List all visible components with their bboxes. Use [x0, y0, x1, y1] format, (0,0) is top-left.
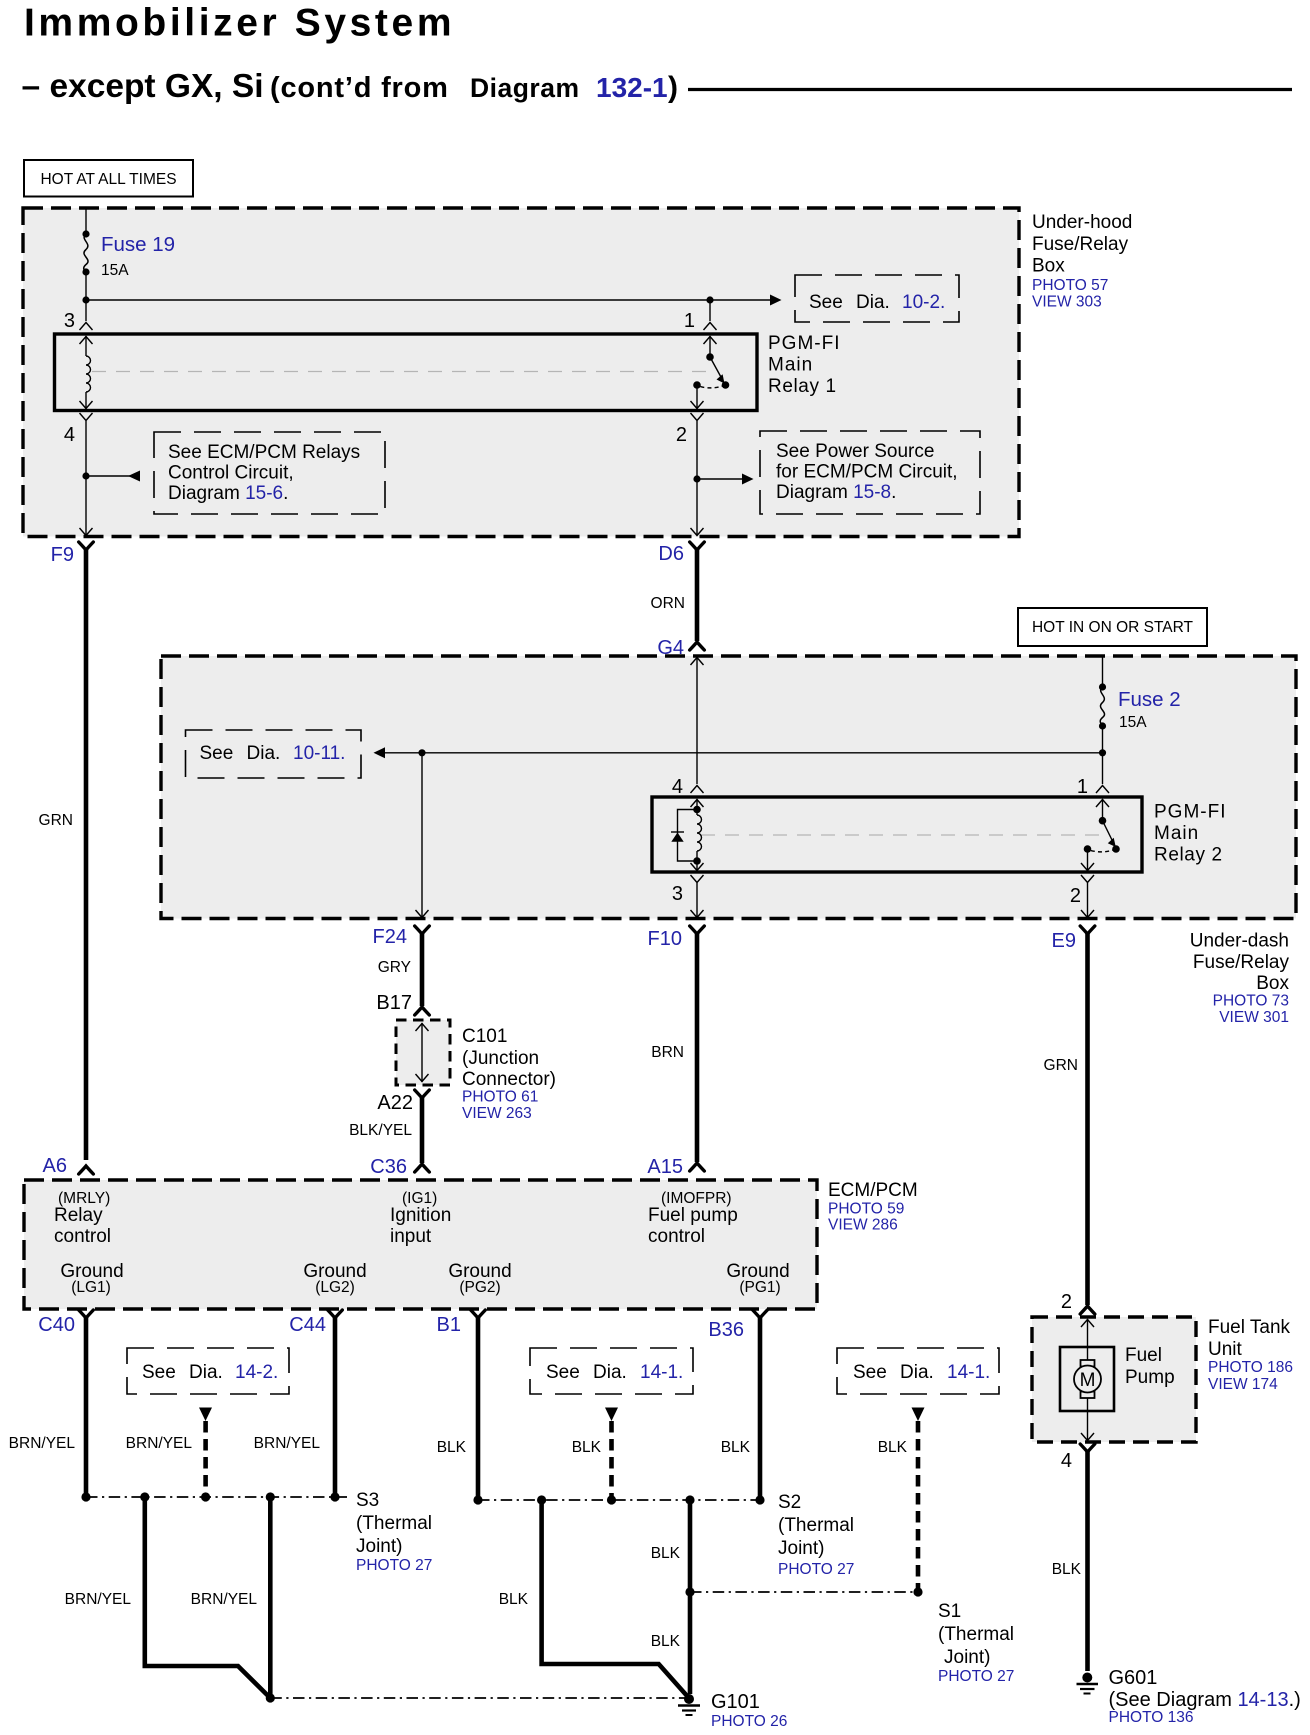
junction connector C101 box [396, 1020, 450, 1085]
svg-text:Box: Box [1032, 256, 1065, 277]
svg-text:Under-hood: Under-hood [1032, 212, 1132, 233]
svg-text:VIEW 303: VIEW 303 [1032, 294, 1102, 311]
svg-text:BRN/YEL: BRN/YEL [254, 1435, 321, 1452]
wire through fuel pump [1081, 1320, 1094, 1328]
svg-text:Fuse 19: Fuse 19 [101, 233, 175, 256]
relay1 internal dashed center line [92, 371, 710, 373]
svg-text:S1: S1 [938, 1601, 961, 1622]
relay1 coil [85, 336, 87, 356]
svg-text:BRN/YEL: BRN/YEL [126, 1435, 193, 1452]
svg-text:4: 4 [1061, 1450, 1072, 1472]
svg-text:BLK: BLK [651, 1545, 681, 1562]
svg-text:See Power Source: See Power Source [776, 441, 934, 462]
svg-text:14-1.: 14-1. [947, 1362, 990, 1383]
fuel pump motor M1 [1060, 1347, 1114, 1411]
svg-text:A6: A6 [43, 1155, 67, 1177]
label box: HOT IN ON OR START [1018, 608, 1207, 646]
svg-text:BRN/YEL: BRN/YEL [9, 1435, 76, 1452]
svg-text:input: input [390, 1226, 432, 1247]
pin 3 of relay 2 [696, 861, 698, 871]
wire BRN/YEL: C44 to S3 bus [333, 1317, 338, 1497]
svg-text:PGM-FI: PGM-FI [1154, 802, 1227, 823]
svg-text:Box: Box [1256, 973, 1289, 994]
svg-text:C36: C36 [370, 1156, 407, 1178]
relay2 coil [696, 799, 698, 810]
reference box: See Power Source for ECM/PCM Circuit Diagram 15-8 [760, 431, 980, 514]
relay2 switch [1102, 799, 1104, 821]
svg-text:14-1.: 14-1. [640, 1362, 683, 1383]
svg-text:PGM-FI: PGM-FI [768, 333, 841, 354]
svg-text:BLK: BLK [878, 1439, 908, 1456]
under-hood fuse/relay box [23, 208, 1019, 537]
node: junction above relay1 pin 1 [706, 296, 713, 303]
svg-text:Fuel: Fuel [1125, 1345, 1162, 1366]
wire BRN: F10 to A15 [695, 933, 700, 1162]
thermal joint S2 bus (dash-dot) [478, 1499, 760, 1501]
wire: relay1 pin4 down to F9 [85, 421, 87, 535]
wire: relay2 pin2 down to E9 [1087, 883, 1089, 917]
svg-text:VIEW 263: VIEW 263 [462, 1105, 532, 1122]
wire: horizontal bus y=300 to See Dia. 10-2 [86, 299, 773, 301]
svg-text:for ECM/PCM Circuit,: for ECM/PCM Circuit, [776, 462, 958, 483]
ground G601 [1082, 1673, 1092, 1683]
pin 2 of relay 2 [1087, 849, 1089, 871]
svg-text:Fuse/Relay: Fuse/Relay [1032, 234, 1129, 255]
svg-text:GRN: GRN [1044, 1057, 1078, 1074]
svg-text:(See Diagram 14-13.): (See Diagram 14-13.) [1109, 1689, 1301, 1711]
svg-text:10-11.: 10-11. [293, 743, 345, 764]
relay2 internal dashed center line [701, 834, 1100, 836]
svg-text:B1: B1 [437, 1314, 461, 1336]
wire GRN: F9 to A6 [84, 549, 89, 1160]
wire: horizontal bus y=752.8 [381, 752, 1103, 754]
wire BLK: B36 to S2 bus [758, 1317, 763, 1500]
svg-text:1: 1 [684, 310, 695, 332]
svg-text:4: 4 [672, 776, 683, 798]
svg-text:Fuse 2: Fuse 2 [1118, 688, 1181, 711]
svg-text:PHOTO 57: PHOTO 57 [1032, 277, 1108, 294]
svg-text:Dia.: Dia. [900, 1362, 934, 1383]
svg-text:PHOTO 27: PHOTO 27 [938, 1668, 1014, 1685]
svg-text:(Thermal: (Thermal [356, 1513, 432, 1534]
svg-text:Dia.: Dia. [247, 743, 281, 764]
svg-text:A22: A22 [377, 1092, 413, 1114]
svg-text:15A: 15A [1119, 714, 1147, 731]
svg-text:See: See [853, 1362, 887, 1383]
label box: HOT AT ALL TIMES [24, 160, 193, 197]
svg-text:Relay 1: Relay 1 [768, 376, 837, 397]
svg-text:ECM/PCM: ECM/PCM [828, 1180, 918, 1201]
wire GRN: E9 to fuel tank unit pin 2 [1085, 933, 1090, 1305]
svg-text:ORN: ORN [651, 595, 685, 612]
fuel tank unit box [1032, 1317, 1196, 1442]
fuse F19 (Fuse 19 15A) [82, 230, 89, 237]
svg-text:Diagram 15-6.: Diagram 15-6. [168, 483, 288, 504]
svg-text:Immobilizer System: Immobilizer System [24, 2, 455, 45]
wire: battery feed into fuse 19 [85, 208, 87, 234]
svg-text:Ignition: Ignition [390, 1205, 451, 1226]
svg-text:D6: D6 [658, 543, 684, 565]
wire BLK dashed: Dia 14-1 to S2 bus [609, 1421, 614, 1500]
svg-text:BLK: BLK [651, 1633, 681, 1650]
thermal joint S3 bus (dash-dot) [86, 1496, 347, 1498]
wire: G4 into under-dash box to relay2 pin 4 [691, 658, 704, 666]
wire BLK: S2 bus drop to S1 junction [688, 1500, 693, 1592]
ECM/PCM box [24, 1180, 817, 1309]
svg-text:BRN/YEL: BRN/YEL [191, 1591, 258, 1608]
wire: ignition feed into fuse 2 [1102, 656, 1104, 687]
svg-text:(Junction: (Junction [462, 1048, 539, 1069]
svg-text:(Thermal: (Thermal [778, 1515, 854, 1536]
svg-text:Dia.: Dia. [593, 1362, 627, 1383]
node: S1 junction on BLK wire [685, 1587, 694, 1596]
svg-text:Dia.: Dia. [856, 292, 890, 313]
arrow from Diagram 15-6 reference [86, 475, 132, 477]
svg-text:BLK: BLK [499, 1591, 529, 1608]
svg-text:(Thermal: (Thermal [938, 1624, 1014, 1645]
reference box: See Dia. 10-2. [795, 275, 959, 322]
node: junction above F24 [418, 749, 425, 756]
wire: junction down to F24 [421, 753, 423, 917]
reference box: See Dia. 14-2. [127, 1348, 289, 1394]
dash-dot bus to G101 [270, 1697, 688, 1699]
svg-text:F9: F9 [51, 544, 74, 566]
arrowhead to See Dia. 10-2 [770, 295, 782, 306]
reference box: See Dia. 10-11. [186, 730, 362, 778]
svg-text:B17: B17 [376, 992, 412, 1014]
svg-text:Relay: Relay [54, 1205, 103, 1226]
svg-text:Relay 2: Relay 2 [1154, 845, 1223, 866]
svg-text:): ) [668, 71, 678, 104]
arrow from Dia 14-1 left [605, 1408, 618, 1422]
svg-text:C44: C44 [289, 1314, 326, 1336]
svg-text:Joint): Joint) [356, 1536, 402, 1557]
svg-text:(PG2): (PG2) [459, 1279, 500, 1296]
svg-text:(PG1): (PG1) [739, 1279, 780, 1296]
wire BLK: S1 junction to G101 [688, 1592, 693, 1694]
svg-text:M: M [1080, 1370, 1096, 1391]
svg-text:Main: Main [768, 355, 813, 376]
svg-text:VIEW 301: VIEW 301 [1219, 1009, 1289, 1026]
diode D1 across relay2 coil [678, 810, 698, 862]
svg-text:VIEW 286: VIEW 286 [828, 1217, 898, 1234]
svg-text:PHOTO 61: PHOTO 61 [462, 1089, 538, 1106]
reference box: See ECM/PCM Relays Control Circuit Diagram 15-6 [154, 432, 385, 514]
svg-text:C101: C101 [462, 1026, 507, 1047]
wire GRY: F24 to B17 [420, 933, 425, 1006]
svg-text:Fuel Tank: Fuel Tank [1208, 1317, 1291, 1338]
wire BRN/YEL: S3 bus left drop to G101 node [145, 1497, 270, 1698]
svg-text:4: 4 [64, 424, 75, 446]
svg-text:BRN/YEL: BRN/YEL [65, 1591, 132, 1608]
thermal joint S1 bus (dash-dot) [690, 1591, 918, 1593]
svg-text:PHOTO 186: PHOTO 186 [1208, 1359, 1293, 1376]
svg-text:See: See [546, 1362, 580, 1383]
svg-text:Under-dash: Under-dash [1190, 931, 1289, 952]
svg-text:Main: Main [1154, 823, 1199, 844]
svg-text:See: See [200, 743, 234, 764]
wire BRN/YEL: C40 to S3 bus [84, 1317, 89, 1497]
svg-text:Fuel pump: Fuel pump [648, 1205, 738, 1226]
svg-text:132-1: 132-1 [596, 72, 668, 103]
wire ORN: D6 to G4 [695, 549, 700, 641]
svg-text:control: control [54, 1226, 111, 1247]
arrow from Dia 14-1 right [912, 1408, 925, 1422]
svg-text:G101: G101 [711, 1691, 760, 1713]
pin 2 of relay 1 [696, 385, 698, 409]
reference box: See Dia. 14-1. (left) [530, 1348, 693, 1394]
svg-text:S3: S3 [356, 1490, 379, 1511]
svg-text:A15: A15 [647, 1156, 683, 1178]
relay K2: PGM-FI Main Relay 2 box [652, 797, 1142, 872]
svg-text:(cont’d from: (cont’d from [270, 72, 449, 104]
wire BRN/YEL: S3 bus right drop to G101 node [268, 1497, 273, 1698]
svg-text:C40: C40 [38, 1314, 75, 1336]
svg-text:Fuse/Relay: Fuse/Relay [1193, 952, 1290, 973]
svg-text:PHOTO 27: PHOTO 27 [778, 1561, 854, 1578]
svg-text:14-2.: 14-2. [235, 1362, 278, 1383]
svg-text:B36: B36 [708, 1319, 744, 1341]
svg-text:3: 3 [64, 310, 75, 332]
svg-text:VIEW 174: VIEW 174 [1208, 1376, 1278, 1393]
node: junction to See Power Source arrow [693, 475, 700, 482]
svg-text:S2: S2 [778, 1492, 801, 1513]
wire: relay1 pin2 down to D6 [696, 421, 698, 535]
node: junction fuse19 / bus to See Dia. 10-2 [82, 296, 89, 303]
svg-text:BLK: BLK [721, 1439, 751, 1456]
svg-text:PHOTO 136: PHOTO 136 [1109, 1709, 1194, 1726]
svg-text:See: See [142, 1362, 176, 1383]
svg-text:Diagram: Diagram [470, 73, 580, 103]
svg-text:Pump: Pump [1125, 1367, 1175, 1388]
wire: fuse 2 to relay 2 pin 1 [1102, 726, 1104, 784]
svg-text:10-2.: 10-2. [902, 292, 945, 313]
svg-text:control: control [648, 1226, 705, 1247]
ground G101 [684, 1694, 694, 1704]
wire: relay2 pin3 down to F10 [696, 883, 698, 917]
svg-text:Connector): Connector) [462, 1069, 556, 1090]
svg-text:E9: E9 [1052, 930, 1076, 952]
wire BLK/YEL: A22 to C36 [420, 1097, 425, 1163]
svg-text:See: See [809, 292, 843, 313]
svg-text:(LG1): (LG1) [71, 1279, 111, 1296]
svg-text:Joint): Joint) [778, 1538, 824, 1559]
svg-text:Dia.: Dia. [189, 1362, 223, 1383]
node: junction to See ECM/PCM Relays arrow [82, 472, 89, 479]
svg-text:2: 2 [676, 424, 687, 446]
svg-text:BLK/YEL: BLK/YEL [349, 1122, 412, 1139]
node: junction fuse2 / bus to See Dia. 10-11 [1099, 749, 1106, 756]
wire BLK: B1 to S2 bus [476, 1317, 481, 1500]
arrow to Power Source reference [697, 478, 745, 480]
arrowhead to See Dia. 10-11 [374, 747, 386, 758]
svg-text:BLK: BLK [1052, 1561, 1082, 1578]
arrow from Dia 14-2 [199, 1408, 212, 1422]
wire: fuse 19 to relay 1 pin 3 [85, 272, 87, 321]
under-dash fuse/relay box [161, 656, 1296, 919]
wire BLK dashed: Dia 14-1 to S1 junction [916, 1421, 921, 1592]
relay K1: PGM-FI Main Relay 1 box [55, 334, 758, 411]
svg-text:GRY: GRY [378, 959, 411, 976]
svg-text:BLK: BLK [572, 1439, 602, 1456]
wire BRN/YEL dashed: Dia 14-2 to S3 bus [203, 1421, 208, 1497]
svg-text:– except GX, Si: – except GX, Si [22, 68, 264, 105]
svg-text:PHOTO 26: PHOTO 26 [711, 1713, 787, 1730]
wire BLK: S2 bus left drop to G101 [542, 1500, 688, 1697]
svg-text:BRN: BRN [651, 1044, 684, 1061]
fuse F2 (Fuse 2 15A) [1099, 683, 1106, 690]
svg-text:Joint): Joint) [944, 1647, 990, 1668]
svg-text:15A: 15A [101, 262, 129, 279]
svg-text:Unit: Unit [1208, 1339, 1243, 1360]
svg-text:GRN: GRN [39, 812, 73, 829]
svg-text:HOT IN ON OR START: HOT IN ON OR START [1032, 619, 1194, 636]
node: BRN/YEL ground junction [266, 1693, 275, 1702]
svg-text:HOT AT ALL TIMES: HOT AT ALL TIMES [40, 171, 176, 188]
svg-text:G601: G601 [1109, 1667, 1158, 1689]
svg-text:Control Circuit,: Control Circuit, [168, 463, 294, 484]
svg-text:F10: F10 [648, 928, 682, 950]
relay1 switch [709, 336, 711, 357]
wire BLK: fuel tank to G601 [1085, 1451, 1090, 1671]
svg-text:3: 3 [672, 883, 683, 905]
svg-text:2: 2 [1061, 1291, 1072, 1313]
svg-text:PHOTO 73: PHOTO 73 [1213, 993, 1289, 1010]
reference box: See Dia. 14-1. (right) [837, 1348, 999, 1394]
svg-text:1: 1 [1077, 776, 1088, 798]
svg-text:Diagram 15-8.: Diagram 15-8. [776, 482, 896, 503]
svg-text:F24: F24 [373, 926, 407, 948]
svg-text:(LG2): (LG2) [315, 1279, 355, 1296]
svg-text:PHOTO 59: PHOTO 59 [828, 1201, 904, 1218]
svg-text:2: 2 [1070, 885, 1081, 907]
svg-text:BLK: BLK [437, 1439, 467, 1456]
svg-text:See ECM/PCM Relays: See ECM/PCM Relays [168, 442, 360, 463]
svg-text:PHOTO 27: PHOTO 27 [356, 1557, 432, 1574]
header rule line [688, 88, 1292, 91]
